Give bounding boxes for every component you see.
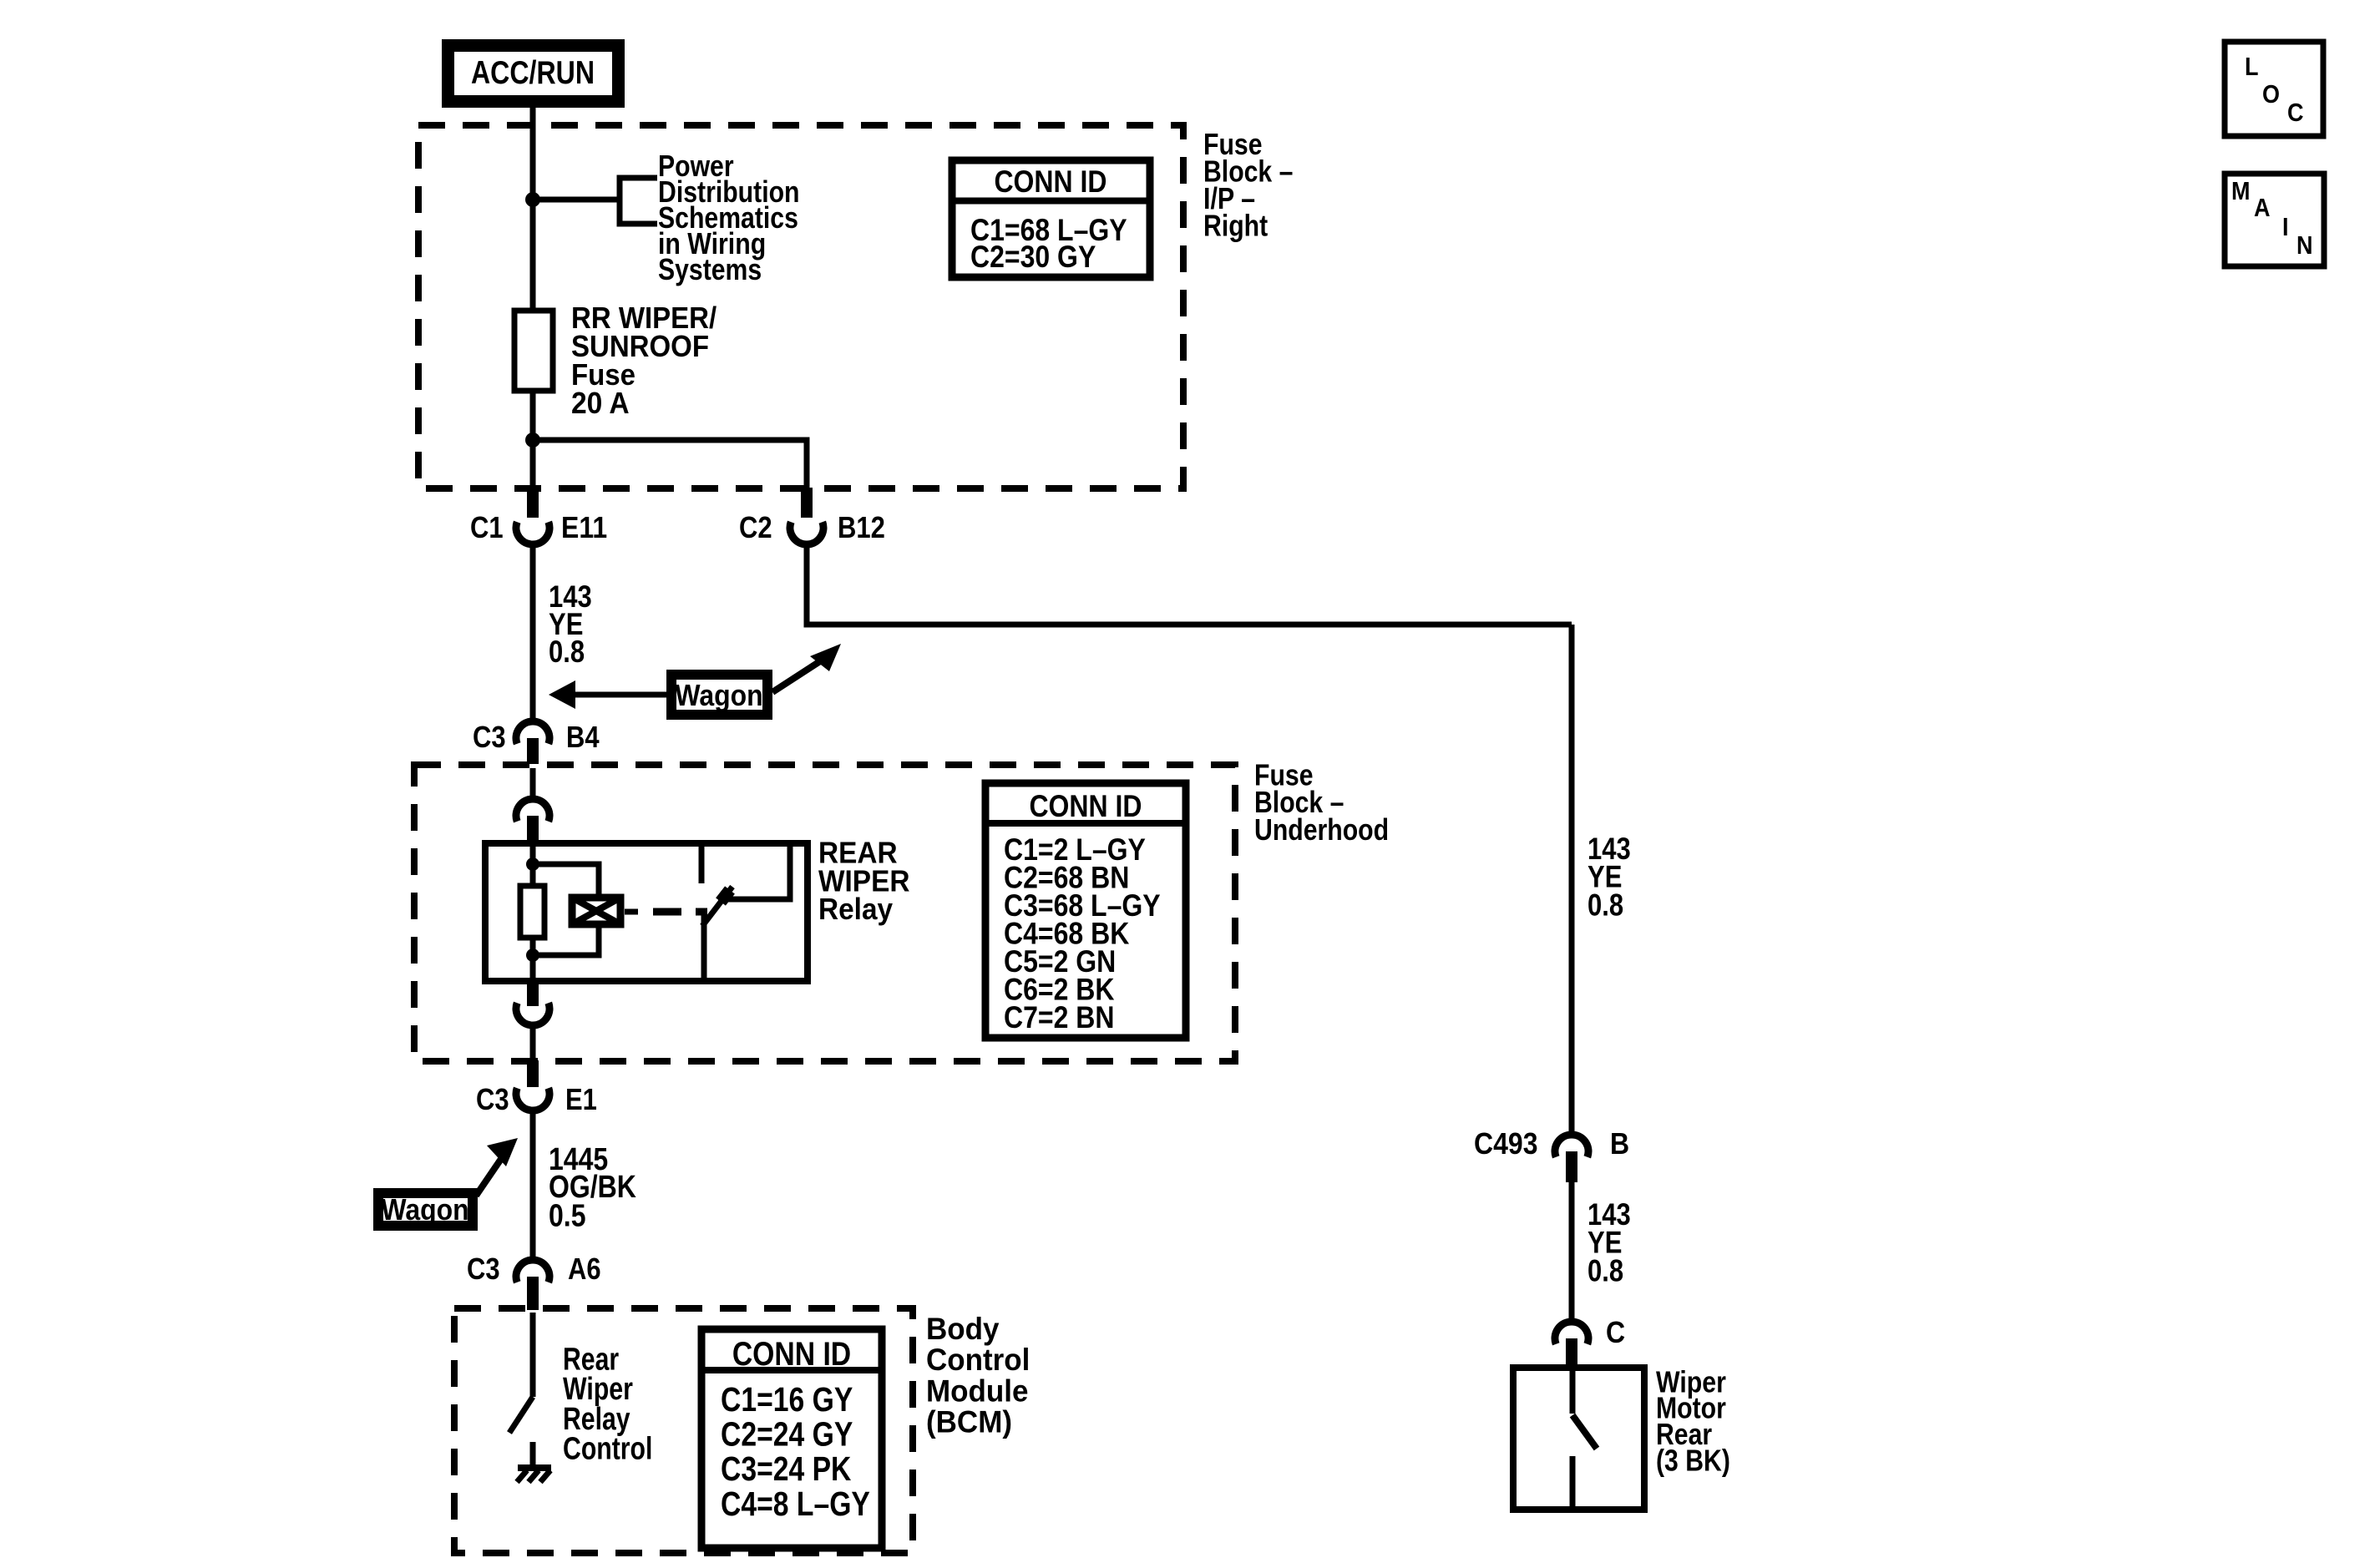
- wiper motor rear box: [1513, 1368, 1644, 1510]
- relay switch: [701, 847, 790, 981]
- svg-text:B4: B4: [566, 720, 600, 754]
- svg-text:(BCM): (BCM): [926, 1405, 1012, 1439]
- svg-text:Control: Control: [563, 1432, 652, 1467]
- wire label 143 YE 0.8 (right upper): [1588, 832, 1631, 922]
- svg-text:Control: Control: [926, 1343, 1030, 1377]
- wire branch to power distribution reference: [533, 197, 620, 203]
- fuse block I/P dashed outline: [418, 125, 1183, 488]
- svg-text:O: O: [2262, 79, 2280, 109]
- arrow from Wagon tag to B12 wire: [772, 644, 841, 692]
- svg-text:Wagon: Wagon: [675, 678, 762, 712]
- svg-text:C493: C493: [1474, 1126, 1538, 1161]
- wire C1 to C3/B4: [530, 543, 536, 720]
- bracket: power distribution schematics reference: [620, 178, 657, 224]
- svg-text:C: C: [1606, 1315, 1625, 1349]
- svg-text:20 A: 20 A: [571, 386, 630, 420]
- svg-text:Wagon: Wagon: [381, 1192, 468, 1227]
- label Wiper Motor Rear (3 BK): [1656, 1364, 1730, 1477]
- svg-text:C4=8 L–GY: C4=8 L–GY: [721, 1485, 870, 1523]
- svg-text:N: N: [2296, 230, 2313, 260]
- svg-text:CONN ID: CONN ID: [994, 164, 1106, 199]
- svg-text:Right: Right: [1203, 209, 1268, 243]
- wire branch toward C2: [533, 440, 807, 489]
- label RR WIPER/SUNROOF Fuse 20 A: [571, 301, 717, 420]
- BCM switch: rear wiper relay control driver: [509, 1313, 533, 1467]
- wire into underhood fuse block: [530, 768, 536, 798]
- svg-text:C2=24 GY: C2=24 GY: [721, 1415, 853, 1454]
- CONN ID table for BCM: [701, 1329, 882, 1548]
- svg-text:C7=2 BN: C7=2 BN: [1004, 1000, 1115, 1034]
- svg-text:C1=16 GY: C1=16 GY: [721, 1380, 853, 1419]
- power feed box ACC/RUN: [448, 46, 619, 102]
- svg-text:Systems: Systems: [658, 252, 762, 286]
- svg-text:0.5: 0.5: [549, 1198, 586, 1233]
- svg-text:CONN ID: CONN ID: [732, 1336, 851, 1373]
- wire label 143 YE 0.8 (right lower): [1588, 1197, 1631, 1287]
- relay coil branch wiring: [533, 864, 599, 894]
- connector C3 pin E1: [476, 1060, 597, 1259]
- connector cavity (dome) at relay top: [516, 799, 549, 844]
- LOC tag box: [2225, 42, 2323, 136]
- relay coil resistor: [520, 886, 544, 938]
- svg-text:C3=24 PK: C3=24 PK: [721, 1449, 852, 1488]
- label Fuse Block - Underhood: [1254, 757, 1389, 847]
- svg-text:C1: C1: [470, 510, 504, 544]
- fuse RR WIPER/SUNROOF 20 A: [514, 311, 553, 391]
- CONN ID table for I/P fuse block: [952, 160, 1150, 277]
- svg-text:C2: C2: [739, 510, 772, 544]
- svg-text:CONN ID: CONN ID: [1029, 789, 1142, 823]
- Wagon tag (lower): [378, 1192, 473, 1227]
- svg-text:Body: Body: [926, 1312, 1000, 1346]
- connector below relay (cavity): [516, 981, 549, 1059]
- svg-text:(3 BK): (3 BK): [1656, 1443, 1730, 1477]
- relay coil terminal and actuator dashes: [625, 909, 707, 915]
- BCM dashed outline: [454, 1308, 913, 1553]
- node: junction below ACC/RUN: [525, 192, 540, 207]
- node: junction below fuse: [525, 432, 540, 448]
- label Body Control Module (BCM): [926, 1312, 1030, 1439]
- Wagon tag (upper): [671, 675, 767, 715]
- MAIN tag box: [2225, 174, 2324, 266]
- svg-text:A: A: [2254, 193, 2271, 222]
- svg-text:0.8: 0.8: [1588, 888, 1623, 922]
- CONN ID table for underhood fuse block: [985, 783, 1186, 1038]
- wire label 143 YE 0.8 (left): [549, 579, 592, 669]
- label Rear Wiper Relay Control: [563, 1342, 652, 1466]
- svg-text:C: C: [2287, 98, 2304, 127]
- relay K: REAR WIPER relay box: [485, 843, 808, 981]
- svg-text:I: I: [2282, 212, 2289, 241]
- svg-text:A6: A6: [568, 1252, 601, 1286]
- svg-text:B: B: [1610, 1126, 1629, 1161]
- svg-text:Relay: Relay: [818, 892, 893, 926]
- label REAR WIPER Relay: [818, 836, 910, 926]
- svg-text:0.8: 0.8: [549, 635, 585, 669]
- wire down right side to C493: [1569, 625, 1575, 1132]
- wire C2 down and right toward wiper motor: [807, 543, 1572, 625]
- connector C3 pin A6: [467, 1252, 601, 1310]
- connector C2 pin B12: [739, 488, 885, 544]
- wire from ACC/RUN into fuse block: [530, 108, 536, 311]
- svg-text:C3: C3: [476, 1082, 509, 1116]
- svg-text:M: M: [2231, 176, 2251, 205]
- label Power Distribution Schematics in Wiring Systems: [658, 149, 800, 286]
- wire label 1445 OG/BK 0.5: [549, 1142, 636, 1234]
- arrow from lower Wagon tag to wire 1445: [476, 1138, 518, 1196]
- relay internal wire and nodes: [526, 843, 539, 981]
- svg-text:C3: C3: [473, 720, 506, 754]
- relay coil winding (crossed box): [572, 898, 620, 924]
- ground (chassis) inside BCM: [517, 1468, 551, 1482]
- svg-text:Module: Module: [926, 1373, 1029, 1408]
- connector C493 pin B: [1474, 1126, 1629, 1182]
- wire from fuse to C1: [530, 391, 536, 489]
- svg-text:B12: B12: [838, 510, 885, 544]
- arrow from Wagon tag to wire 143: [549, 680, 666, 709]
- svg-text:E1: E1: [565, 1082, 597, 1116]
- svg-text:L: L: [2245, 52, 2259, 81]
- svg-text:C3: C3: [467, 1252, 500, 1286]
- connector pin C at wiper motor: [1555, 1315, 1625, 1368]
- wiper motor internal switch: [1572, 1368, 1597, 1510]
- svg-text:E11: E11: [561, 510, 607, 544]
- fuse block underhood dashed outline: [414, 765, 1235, 1061]
- label Fuse Block - I/P - Right: [1203, 127, 1293, 243]
- connector C3 pin B4: [473, 720, 600, 764]
- svg-text:ACC/RUN: ACC/RUN: [471, 55, 595, 91]
- svg-text:Underhood: Underhood: [1254, 812, 1389, 847]
- wire C493 to motor connector: [1569, 1182, 1575, 1321]
- svg-text:0.8: 0.8: [1588, 1253, 1623, 1287]
- connector C1 pin E11: [470, 488, 607, 544]
- svg-text:C2=30 GY: C2=30 GY: [970, 240, 1096, 274]
